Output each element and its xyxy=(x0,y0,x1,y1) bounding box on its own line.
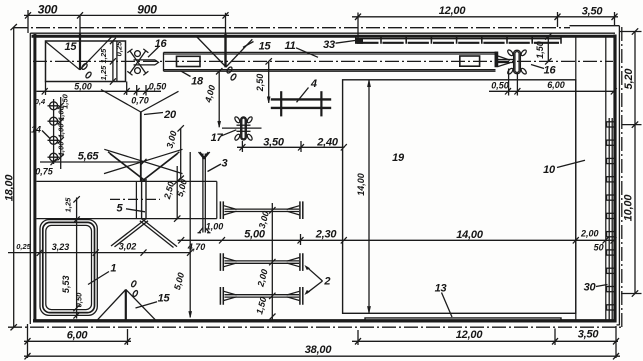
dimension 3,50 / 2,40 xyxy=(237,136,347,152)
dimension line left 18,00 xyxy=(4,24,17,330)
svg-text:4: 4 xyxy=(310,78,317,90)
svg-text:18,00: 18,00 xyxy=(4,174,16,202)
dimension 2,50 vertical at trestle xyxy=(162,166,181,222)
wall top xyxy=(30,32,615,34)
svg-text:1,00: 1,00 xyxy=(57,105,66,120)
svg-text:13: 13 xyxy=(435,283,447,295)
svg-text:0,75: 0,75 xyxy=(35,166,54,176)
svg-text:15: 15 xyxy=(259,40,272,52)
machine area 19 outline xyxy=(343,80,576,313)
conveyor 11 label xyxy=(284,40,318,57)
beams 2 label xyxy=(305,265,331,295)
dimension 5,00 vertical left of beams xyxy=(172,152,192,318)
svg-text:2: 2 xyxy=(323,276,330,288)
svg-text:12,00: 12,00 xyxy=(439,5,467,17)
svg-text:1: 1 xyxy=(110,263,116,275)
centerline axis bottom (dash-dot) xyxy=(8,326,622,328)
svg-text:1,25: 1,25 xyxy=(99,65,108,80)
dimension 4,00 xyxy=(203,68,223,127)
room 15 mast xyxy=(79,15,81,33)
svg-text:12,00: 12,00 xyxy=(456,329,484,341)
trolley 18 xyxy=(177,56,204,87)
block 16 right xyxy=(498,49,556,76)
svg-text:3,23: 3,23 xyxy=(52,242,70,252)
hoist frame 20 xyxy=(101,90,179,182)
room 15 diagonal braces xyxy=(46,42,80,70)
svg-text:18: 18 xyxy=(191,76,204,88)
conveyor 11 body xyxy=(164,52,496,71)
support 15 middle xyxy=(197,13,272,81)
svg-text:15: 15 xyxy=(64,41,77,53)
svg-text:3,50: 3,50 xyxy=(578,329,600,341)
trolley on conveyor right xyxy=(460,56,480,66)
inner wall line x=576 xyxy=(575,37,577,320)
dimension 5,65 xyxy=(40,151,147,166)
svg-text:50: 50 xyxy=(594,243,604,253)
dimension 3,00 vertical above trestle xyxy=(165,125,184,182)
svg-text:14,00: 14,00 xyxy=(356,173,366,196)
svg-text:0,50: 0,50 xyxy=(149,82,167,92)
svg-text:1,00: 1,00 xyxy=(57,123,66,138)
beam 2 third xyxy=(220,287,302,305)
svg-text:3: 3 xyxy=(222,157,228,169)
dimension line bottom 6,00 / 12,00 / 3,50 xyxy=(24,324,619,358)
svg-text:38,00: 38,00 xyxy=(305,344,333,356)
rail 13 along bottom xyxy=(365,283,561,320)
dimension 3,00 / 2,00 / 1,50 vertical at beams xyxy=(254,203,275,320)
svg-text:0,25: 0,25 xyxy=(16,242,31,251)
svg-text:5,00: 5,00 xyxy=(244,228,266,240)
beam 2 second xyxy=(220,253,302,271)
svg-text:0,70: 0,70 xyxy=(131,96,149,106)
dimension 1,25 / 5,53 / 0,50 vertical at tank xyxy=(61,196,84,318)
svg-text:5,65: 5,65 xyxy=(78,151,100,163)
dimension 3,23 / 3,02 / 0,25 xyxy=(8,241,193,256)
dimension 2,50 at rack 4 xyxy=(255,58,272,103)
svg-text:300: 300 xyxy=(38,3,58,17)
crane rail 33 xyxy=(323,13,561,51)
column dimension line 0,4 / 1,50 / 1,00 xyxy=(35,93,70,176)
svg-text:10: 10 xyxy=(543,164,556,176)
building outer contour top-right step xyxy=(570,25,620,27)
svg-text:10,00: 10,00 xyxy=(623,194,635,222)
block 16 left xyxy=(127,38,167,75)
dimension line top-left 300/900 xyxy=(24,3,229,33)
room 15 top-left xyxy=(46,41,126,82)
centerline axis top (dash-dot) xyxy=(14,27,570,29)
workbench band xyxy=(37,181,217,218)
svg-text:14,00: 14,00 xyxy=(456,229,484,241)
svg-text:1,50: 1,50 xyxy=(535,41,545,59)
svg-text:19: 19 xyxy=(392,152,405,164)
svg-text:6,00: 6,00 xyxy=(547,80,565,90)
svg-text:1,00: 1,00 xyxy=(206,222,224,232)
svg-text:6,00: 6,00 xyxy=(67,330,89,342)
svg-text:5,53: 5,53 xyxy=(61,276,71,294)
column markers 14 xyxy=(31,99,60,164)
zone 10 label xyxy=(543,160,585,176)
beam 2 first xyxy=(220,201,302,219)
dimension 14,00 vertical inside 19 xyxy=(356,80,371,313)
stand 3 xyxy=(198,152,228,233)
svg-text:900: 900 xyxy=(137,3,157,17)
trestle 5 xyxy=(104,149,183,247)
turnbuckle 17 xyxy=(211,116,262,144)
room 15 dim 1,25 1,25 0,25 xyxy=(99,38,124,85)
svg-text:0,4: 0,4 xyxy=(35,97,46,106)
svg-text:4,70: 4,70 xyxy=(187,242,206,252)
centerline axis right (dash-dot) xyxy=(621,27,623,327)
conveyor right end flange xyxy=(495,52,498,67)
centerline monorail axis (dash-dot) xyxy=(33,60,613,62)
svg-text:2,30: 2,30 xyxy=(315,229,338,241)
svg-text:2,40: 2,40 xyxy=(316,137,339,149)
dimension 1,50 right xyxy=(535,33,552,64)
svg-text:1,25: 1,25 xyxy=(64,197,73,212)
svg-text:5,00: 5,00 xyxy=(74,82,92,92)
svg-text:16: 16 xyxy=(544,64,557,76)
heating radiators 30 xyxy=(584,118,615,320)
svg-text:3,02: 3,02 xyxy=(119,241,137,251)
svg-text:1,25: 1,25 xyxy=(99,48,108,63)
svg-text:2,50: 2,50 xyxy=(255,74,265,93)
dimension line right 5,20 / 10,00 xyxy=(619,28,642,296)
room 15 hook pulleys xyxy=(81,63,88,71)
wall right xyxy=(613,35,616,323)
tank 1 xyxy=(40,220,116,316)
svg-text:3,50: 3,50 xyxy=(582,6,604,18)
dimension line bottom 38,00 xyxy=(24,344,620,359)
svg-text:20: 20 xyxy=(163,109,177,121)
svg-text:15: 15 xyxy=(158,292,171,304)
svg-text:1,00: 1,00 xyxy=(57,141,66,156)
inner wall line x=606 xyxy=(605,37,607,320)
rack 4 xyxy=(271,78,331,116)
svg-text:14: 14 xyxy=(31,124,41,134)
wall bottom xyxy=(33,319,617,322)
svg-text:0,50: 0,50 xyxy=(491,81,509,91)
svg-text:3,50: 3,50 xyxy=(263,136,285,148)
wall left xyxy=(29,33,31,324)
dimension 5,00 / 0,70 / 0,50 under room 15 xyxy=(37,82,167,106)
svg-text:0,50: 0,50 xyxy=(75,292,84,307)
svg-text:2,00: 2,00 xyxy=(580,229,599,239)
svg-text:33: 33 xyxy=(323,39,335,51)
svg-text:17: 17 xyxy=(211,132,224,144)
svg-text:30: 30 xyxy=(584,281,597,293)
dimension line top-right 12,00/3,50 xyxy=(352,5,618,27)
svg-text:5,20: 5,20 xyxy=(623,68,635,90)
derrick 15 bottom xyxy=(98,280,171,320)
svg-text:11: 11 xyxy=(284,40,295,52)
svg-text:0,25: 0,25 xyxy=(115,41,124,56)
dimension 0,50 / 6,00 right xyxy=(489,69,617,96)
dimension 4,70 / 5,00 / 2,30 / 14,00 / 2,00 / 50 xyxy=(178,228,617,252)
